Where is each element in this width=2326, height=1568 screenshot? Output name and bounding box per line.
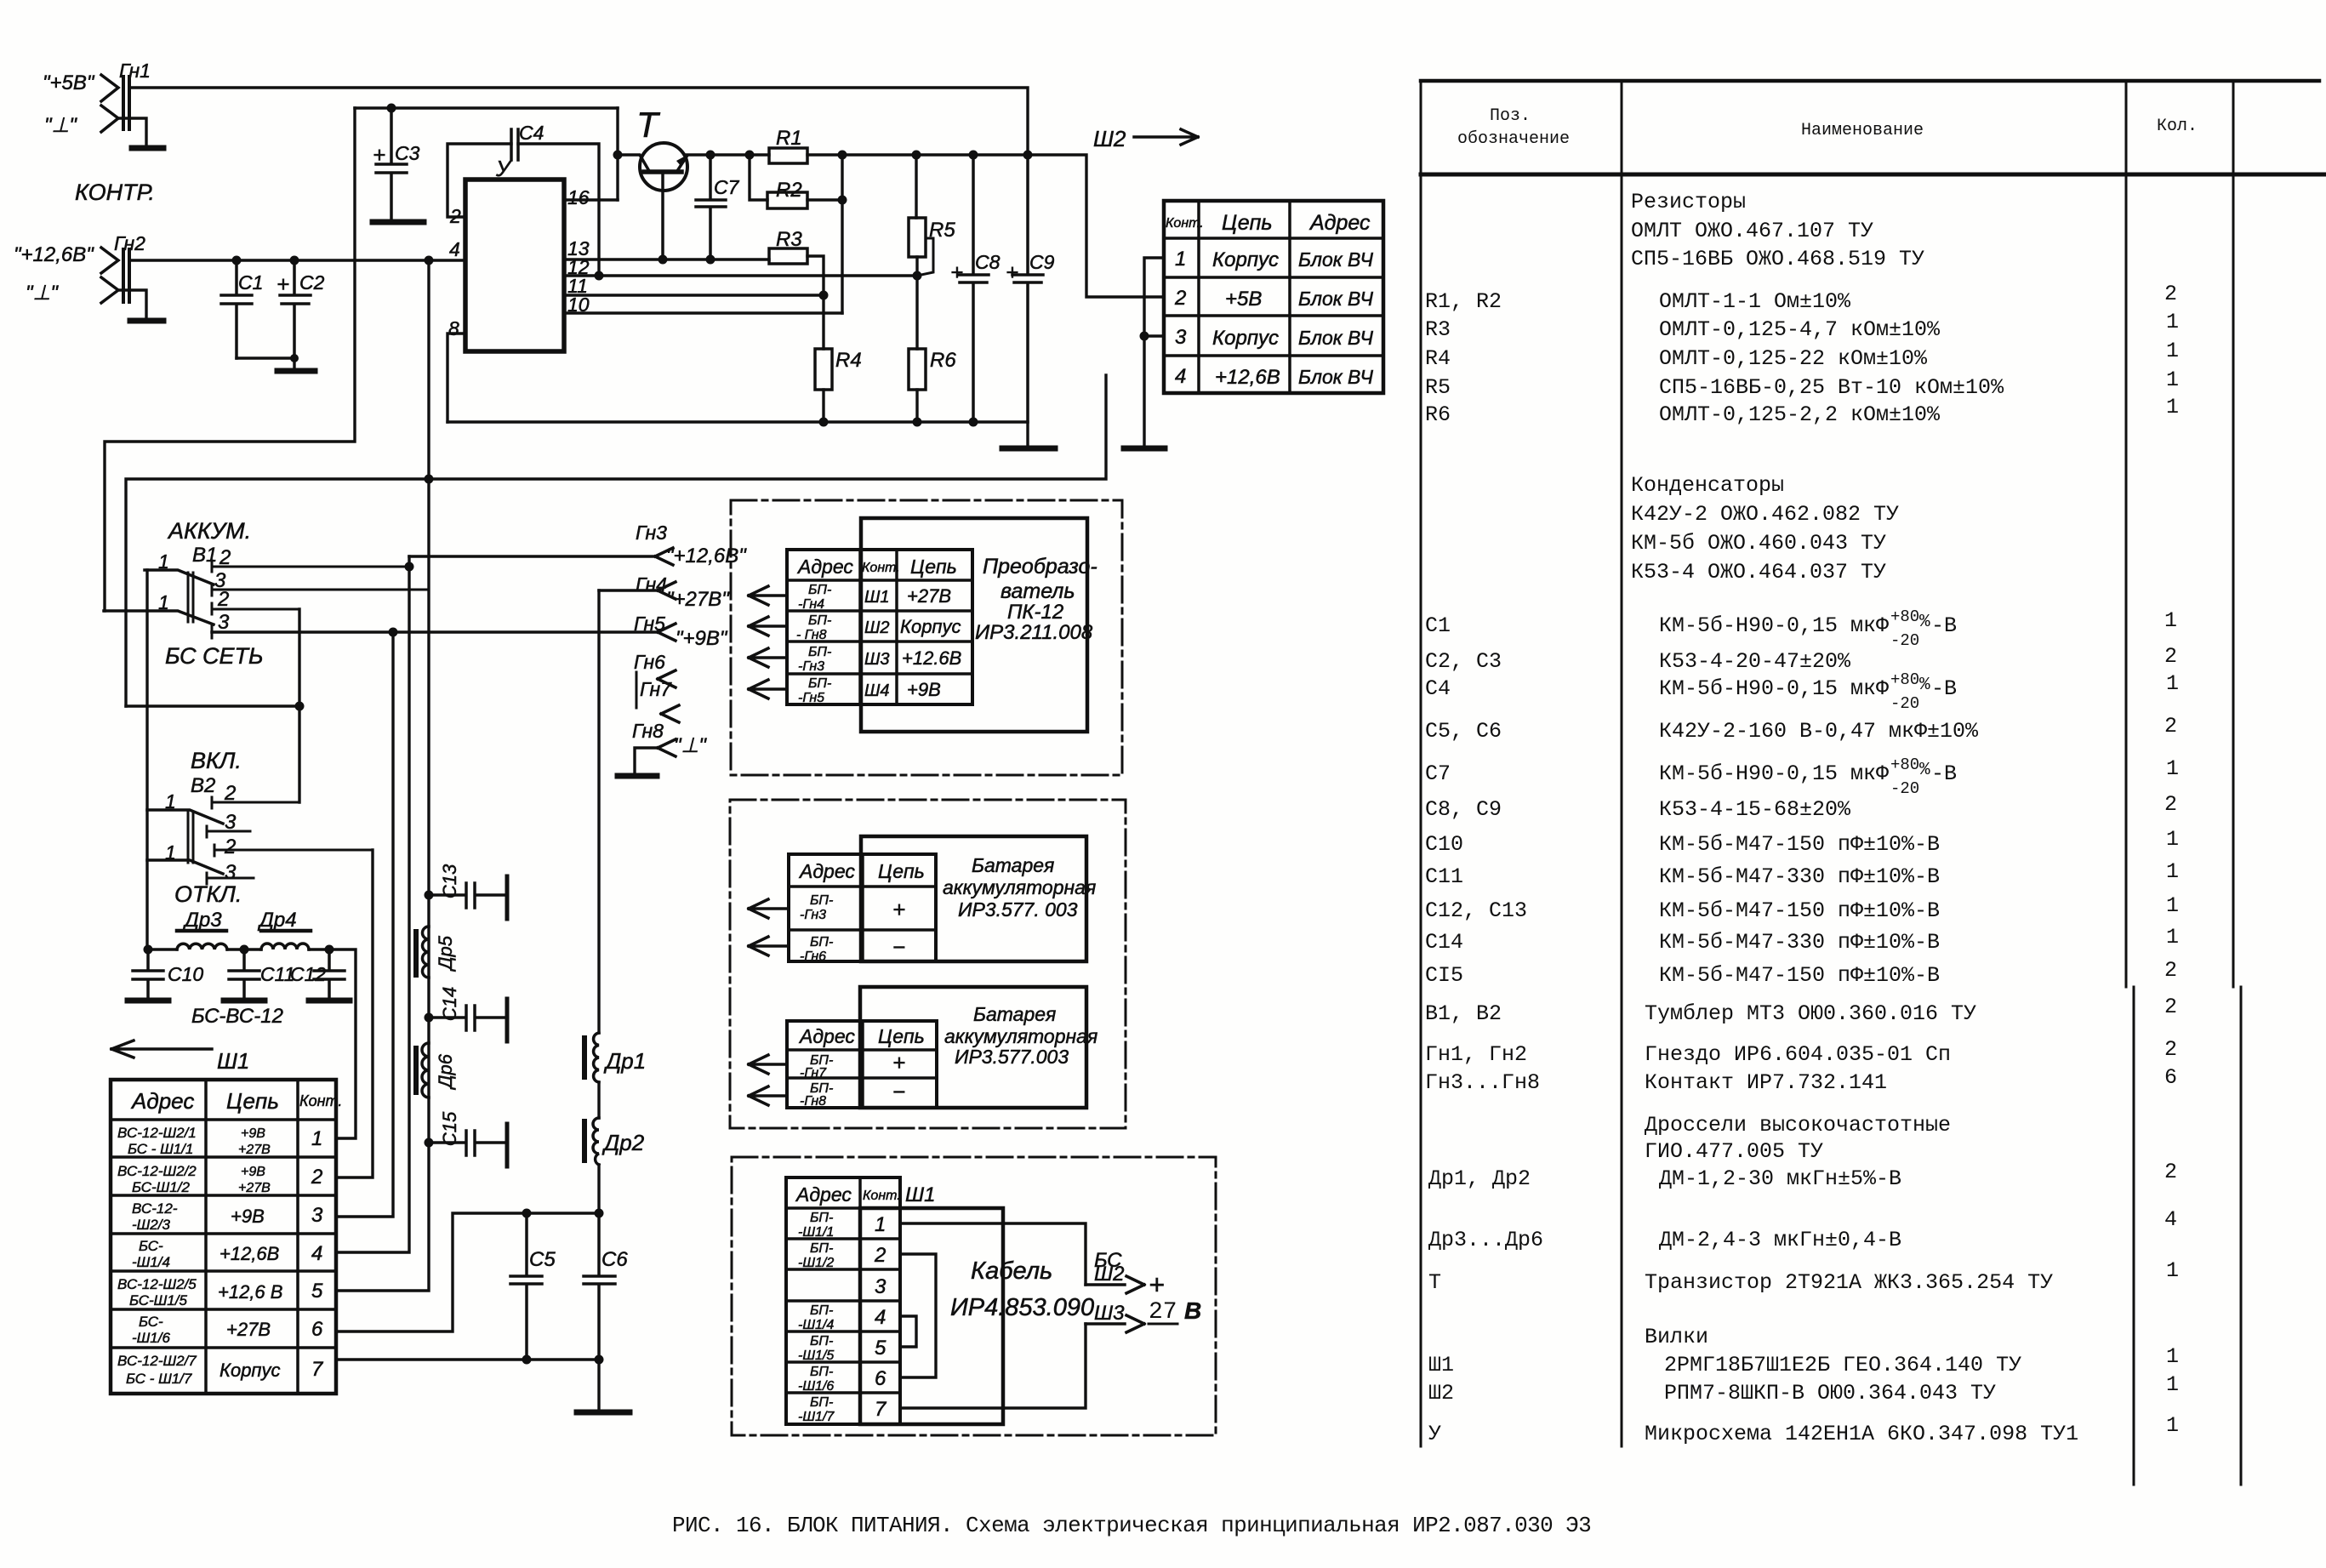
svg-text:+5В: +5В (1225, 288, 1262, 311)
svg-text:К53-4-20-47±20%: К53-4-20-47±20% (1659, 649, 1851, 674)
svg-text:2: 2 (217, 588, 229, 611)
wire Кабель pin4-pin5 loop (900, 1316, 916, 1347)
svg-text:Конт.: Конт. (1166, 216, 1204, 231)
svg-text:3: 3 (225, 861, 237, 884)
svg-text:2: 2 (2164, 714, 2177, 738)
svg-text:R1, R2: R1, R2 (1425, 289, 1502, 314)
svg-text:+12,6 В: +12,6 В (218, 1281, 282, 1303)
svg-text:%: % (1919, 761, 1930, 780)
svg-text:+: + (892, 1050, 905, 1075)
svg-text:БП-: БП- (810, 1211, 833, 1225)
svg-text:С14: С14 (1425, 930, 1463, 955)
svg-text:Ш3: Ш3 (1094, 1302, 1125, 1325)
svg-text:С14: С14 (439, 987, 460, 1021)
svg-text:+9В: +9В (907, 679, 941, 700)
svg-text:6: 6 (2164, 1065, 2177, 1090)
svg-text:Т: Т (636, 105, 661, 145)
svg-text:2: 2 (2164, 282, 2177, 306)
wire +5V top bus (129, 88, 1028, 155)
wire R1R2 node to pin10 (841, 155, 843, 313)
dash-dot box Преобразователь (731, 500, 1122, 775)
dash-dot box Кабель (732, 1157, 1216, 1435)
svg-text:В: В (1184, 1297, 1201, 1324)
svg-text:К53-4-15-68±20%: К53-4-15-68±20% (1659, 797, 1851, 822)
svg-text:СI5: СI5 (1425, 963, 1463, 988)
svg-text:1: 1 (1175, 248, 1186, 271)
svg-text:-Гн6: -Гн6 (800, 949, 826, 964)
node C3 top (387, 104, 396, 113)
capacitor C8 (950, 155, 1001, 422)
svg-text:6: 6 (875, 1367, 887, 1390)
svg-text:R1: R1 (776, 127, 802, 150)
svg-text:БП-: БП- (810, 1395, 833, 1410)
svg-text:ГИО.477.005 ТУ: ГИО.477.005 ТУ (1645, 1139, 1823, 1164)
svg-text:Др3: Др3 (182, 909, 222, 932)
svg-text:Ш2: Ш2 (1428, 1381, 1454, 1405)
svg-text:Т: Т (1428, 1270, 1441, 1295)
svg-text:ОМЛТ-1-1 Ом±10%: ОМЛТ-1-1 Ом±10% (1659, 289, 1851, 314)
choke Др6 (416, 1043, 456, 1098)
svg-text:ВС-12-Ш2/7: ВС-12-Ш2/7 (117, 1353, 197, 1369)
table Кабель Ш1 (786, 1177, 935, 1424)
labels battery 1 (943, 854, 1096, 921)
label 27 В (1149, 1297, 1201, 1326)
svg-text:3: 3 (1175, 326, 1187, 349)
svg-text:+: + (276, 271, 289, 297)
svg-text:-Ш1/2: -Ш1/2 (798, 1256, 834, 1270)
svg-text:Др4: Др4 (257, 909, 297, 932)
capacitor C7 (696, 155, 740, 259)
connector Гн1 (43, 60, 151, 146)
solid box ПК-12 (861, 518, 1087, 732)
chip U body (465, 180, 564, 351)
transistor T (618, 105, 687, 259)
svg-text:Цепь: Цепь (1222, 211, 1273, 235)
svg-text:РИС. 16. БЛОК ПИТАНИЯ. Схема э: РИС. 16. БЛОК ПИТАНИЯ. Схема электрическ… (672, 1513, 1591, 1538)
wire Др2 down to C6 node (597, 1165, 600, 1213)
svg-text:27: 27 (1149, 1299, 1177, 1326)
wire link to B2 (126, 706, 299, 802)
svg-text:8: 8 (448, 317, 459, 339)
svg-text:2: 2 (1174, 287, 1186, 310)
svg-text:1: 1 (2166, 1344, 2179, 1369)
parts row microcircuit (1428, 1413, 2179, 1446)
node C1 top (232, 256, 242, 265)
svg-text:16: 16 (567, 186, 590, 208)
ground under C1 C2 (277, 368, 315, 374)
pin 11 (564, 275, 824, 297)
switch B1 АККУМ (104, 518, 429, 638)
label Ш1 with arrow (111, 1041, 249, 1074)
svg-text:БП-: БП- (808, 583, 831, 597)
svg-text:R4: R4 (835, 349, 862, 372)
node base (613, 151, 623, 160)
svg-text:Преобразо-: Преобразо- (983, 555, 1097, 579)
wire riser to switch feed (105, 108, 355, 611)
svg-text:ватель: ватель (1001, 579, 1075, 603)
svg-text:С3: С3 (395, 142, 420, 164)
svg-text:+12,6В: +12,6В (219, 1243, 279, 1264)
svg-text:БП-: БП- (810, 935, 833, 949)
svg-text:-Ш1/7: -Ш1/7 (798, 1410, 835, 1424)
svg-text:БП-: БП- (808, 645, 831, 659)
capacitor C4 (511, 122, 544, 160)
wire Ш1 pin risers (336, 850, 373, 1177)
svg-text:С15: С15 (439, 1111, 460, 1146)
parts row transistor (1428, 1258, 2179, 1295)
svg-text:Адрес: Адрес (796, 556, 853, 578)
svg-text:-Гн3: -Гн3 (798, 659, 824, 674)
wire middle filter column (336, 479, 429, 1291)
svg-text:ВС-12-Ш2/5: ВС-12-Ш2/5 (117, 1276, 197, 1292)
svg-text:+12.6В: +12.6В (902, 647, 961, 669)
table battery 2 (787, 1021, 937, 1109)
svg-text:Цепь: Цепь (226, 1088, 279, 1114)
contact Гн8 (632, 720, 707, 773)
svg-text:1: 1 (2166, 671, 2179, 696)
svg-text:-В: -В (1931, 676, 1957, 701)
svg-text:2: 2 (874, 1244, 886, 1267)
wire +12.6V from Гн2 to chip pin 4 (129, 259, 465, 261)
switch B2 ВКЛ (147, 748, 373, 884)
svg-text:+9В: +9В (241, 1126, 265, 1141)
svg-text:Ш2: Ш2 (1093, 126, 1126, 151)
parts table header (1457, 106, 2198, 149)
svg-text:БП-: БП- (810, 1365, 833, 1379)
svg-text:С12, С13: С12, С13 (1425, 898, 1527, 923)
arrows Преобразователь (749, 586, 787, 605)
svg-text:1: 1 (2166, 1413, 2179, 1438)
svg-text:-Ш1/1: -Ш1/1 (798, 1225, 834, 1240)
svg-text:КМ-5б-М47-150 пФ±10%-В: КМ-5б-М47-150 пФ±10%-В (1659, 832, 1940, 857)
svg-text:7: 7 (311, 1358, 324, 1381)
contact Гн3 (409, 522, 747, 567)
wire ground line from Ш1 pin7 (336, 1360, 599, 1408)
svg-text:+80: +80 (1890, 670, 1919, 689)
svg-text:+80: +80 (1890, 607, 1919, 626)
svg-text:Цепь: Цепь (878, 860, 925, 882)
svg-text:Гн1, Гн2: Гн1, Гн2 (1425, 1042, 1527, 1067)
svg-text:5: 5 (311, 1280, 323, 1303)
svg-text:СП5-16ВБ-0,25 Вт-10 кОм±10%: СП5-16ВБ-0,25 Вт-10 кОм±10% (1659, 375, 2004, 400)
svg-text:Гн7: Гн7 (640, 678, 672, 700)
svg-text:-20: -20 (1890, 694, 1919, 713)
svg-text:%: % (1919, 613, 1930, 632)
svg-text:R3: R3 (1425, 317, 1451, 342)
pin 2 (448, 144, 511, 227)
svg-text:1: 1 (2166, 925, 2179, 949)
parts rows chokes (1428, 1113, 2177, 1252)
svg-text:Ш1: Ш1 (1428, 1353, 1454, 1377)
svg-text:С5: С5 (529, 1248, 556, 1271)
svg-text:2: 2 (224, 835, 236, 858)
wire Гн4 riser to Др1 (597, 590, 600, 1033)
pin 13 (564, 237, 769, 259)
node R2 drop (745, 151, 755, 160)
svg-text:ОМЛТ-0,125-2,2 кОм±10%: ОМЛТ-0,125-2,2 кОм±10% (1659, 402, 1941, 427)
svg-text:Ш4: Ш4 (864, 681, 890, 700)
wire Гн3 to pin4 riser (336, 556, 409, 1252)
svg-text:С12: С12 (290, 963, 326, 985)
svg-text:%: % (1919, 676, 1930, 695)
contact Гн7 (636, 672, 679, 722)
svg-text:В1: В1 (192, 544, 217, 567)
svg-text:-Гн4: -Гн4 (798, 597, 824, 612)
capacitor C10 (128, 949, 203, 1001)
svg-text:Микросхема 142ЕН1А 6КО.347.098: Микросхема 142ЕН1А 6КО.347.098 ТУ1 (1645, 1422, 2078, 1446)
svg-text:У: У (495, 156, 512, 181)
svg-text:БС СЕТЬ: БС СЕТЬ (165, 643, 264, 669)
svg-text:Конденсаторы: Конденсаторы (1631, 473, 1784, 498)
svg-text:С1: С1 (238, 271, 263, 294)
arrows battery 2 (749, 1055, 787, 1074)
ground under Ш2 riser (1124, 446, 1165, 452)
ground under Гн8 (618, 773, 657, 779)
svg-text:БС-: БС- (139, 1314, 163, 1330)
svg-text:БС - Ш1/7: БС - Ш1/7 (126, 1371, 192, 1387)
svg-text:ИР4.853.090: ИР4.853.090 (950, 1294, 1094, 1321)
svg-text:2: 2 (2164, 1037, 2177, 1062)
svg-text:2: 2 (311, 1166, 322, 1189)
capacitor C5 (510, 1213, 556, 1360)
svg-text:К53-4 ОЖО.464.037 ТУ: К53-4 ОЖО.464.037 ТУ (1631, 560, 1886, 584)
svg-text:2РМГ18Б7Ш1Е2Б ГЕО.364.140 ТУ: 2РМГ18Б7Ш1Е2Б ГЕО.364.140 ТУ (1664, 1353, 2021, 1377)
wire Ш2 pin1 pin3 ground riser (1144, 258, 1164, 446)
svg-text:Гнездо ИР6.604.035-01 Сп: Гнездо ИР6.604.035-01 Сп (1645, 1042, 1951, 1067)
svg-text:Блок ВЧ: Блок ВЧ (1298, 327, 1374, 349)
svg-text:К42У-2-160 В-0,47 мкФ±10%: К42У-2-160 В-0,47 мкФ±10% (1659, 719, 1979, 744)
svg-text:Корпус: Корпус (1212, 248, 1279, 271)
svg-text:ВС-12-Ш2/2: ВС-12-Ш2/2 (117, 1163, 197, 1179)
svg-text:+: + (1149, 1269, 1165, 1300)
svg-text:Конт.: Конт. (299, 1092, 342, 1109)
svg-text:1: 1 (2166, 395, 2179, 419)
capacitor C13 (425, 864, 508, 919)
svg-text:-В: -В (1931, 613, 1957, 638)
svg-text:ОМЛТ ОЖО.467.107 ТУ: ОМЛТ ОЖО.467.107 ТУ (1631, 219, 1873, 243)
capacitor C6 (584, 1213, 628, 1360)
svg-text:Контакт ИР7.732.141: Контакт ИР7.732.141 (1645, 1070, 1887, 1095)
svg-text:С1: С1 (1425, 613, 1451, 638)
svg-text:В1, В2: В1, В2 (1425, 1001, 1502, 1026)
svg-text:Адрес: Адрес (1308, 211, 1371, 235)
svg-text:R6: R6 (1425, 402, 1451, 427)
svg-text:С8: С8 (975, 251, 1001, 273)
svg-text:С4: С4 (1425, 676, 1451, 701)
svg-text:Дроссели высокочастотные: Дроссели высокочастотные (1645, 1113, 1951, 1138)
svg-text:Гн8: Гн8 (632, 720, 664, 742)
svg-text:Др2: Др2 (601, 1130, 645, 1155)
svg-text:1: 1 (2166, 339, 2179, 363)
svg-text:Блок ВЧ: Блок ВЧ (1298, 366, 1374, 388)
resistor R4 (815, 349, 862, 422)
wire B1 commons column (145, 570, 148, 949)
svg-text:-Ш1/6: -Ш1/6 (132, 1330, 170, 1346)
wire Кабель pin1 to Ш2 (900, 1223, 1086, 1285)
svg-text:КМ-5б-М47-330 пФ±10%-В: КМ-5б-М47-330 пФ±10%-В (1659, 930, 1940, 955)
ground under Гн2 (130, 318, 163, 324)
resistor R2 (750, 155, 842, 208)
pin 12 (564, 256, 917, 278)
svg-text:Цепь: Цепь (910, 556, 957, 578)
svg-text:Тумблер МТ3 ОЮ0.360.016 ТУ: Тумблер МТ3 ОЮ0.360.016 ТУ (1645, 1001, 1976, 1026)
svg-text:С6: С6 (601, 1248, 628, 1271)
svg-text:С7: С7 (1425, 761, 1451, 786)
svg-text:Резисторы: Резисторы (1631, 190, 1746, 214)
svg-text:Ш1: Ш1 (217, 1048, 249, 1074)
svg-text:Блок ВЧ: Блок ВЧ (1298, 248, 1374, 271)
svg-text:Батарея: Батарея (973, 1003, 1056, 1025)
svg-text:Цепь: Цепь (878, 1025, 925, 1047)
svg-text:6: 6 (311, 1318, 323, 1341)
wire C3 node to chip area (355, 106, 618, 109)
svg-text:БС - Ш1/1: БС - Ш1/1 (128, 1141, 193, 1157)
svg-text:С2: С2 (299, 271, 325, 294)
svg-text:1: 1 (2166, 893, 2179, 918)
svg-text:4: 4 (2164, 1207, 2177, 1232)
svg-text:Батарея: Батарея (972, 854, 1054, 876)
svg-text:СП5-16ВБ ОЖО.468.519 ТУ: СП5-16ВБ ОЖО.468.519 ТУ (1631, 247, 1924, 271)
wire base column (616, 108, 619, 200)
svg-text:5: 5 (875, 1337, 887, 1360)
contact Гн6 (634, 651, 676, 687)
ground symbol right of C9 (1002, 446, 1055, 452)
pin 16 (564, 186, 618, 208)
wire +12.6V lower bus (126, 375, 1106, 706)
svg-text:ИР3.211.008: ИР3.211.008 (975, 621, 1093, 644)
svg-text:ОМЛТ-0,125-4,7 кОм±10%: ОМЛТ-0,125-4,7 кОм±10% (1659, 317, 1941, 342)
svg-text:-Ш1/5: -Ш1/5 (798, 1348, 834, 1363)
svg-text:3: 3 (311, 1204, 323, 1227)
node T base on pin13 line (658, 255, 668, 265)
svg-text:1: 1 (2166, 1258, 2179, 1283)
svg-text:Гн3...Гн8: Гн3...Гн8 (1425, 1070, 1540, 1095)
pin 8 (448, 317, 465, 422)
svg-text:Наименование: Наименование (1801, 121, 1924, 140)
svg-text:БП-: БП- (808, 676, 831, 691)
node pin12 C4 (595, 271, 604, 281)
svg-text:КМ-5б-М47-330 пФ±10%-В: КМ-5б-М47-330 пФ±10%-В (1659, 864, 1940, 889)
svg-text:Ш1: Ш1 (864, 588, 890, 607)
svg-text:R6: R6 (930, 349, 956, 372)
svg-text:ВС-12-Ш2/1: ВС-12-Ш2/1 (117, 1125, 197, 1141)
svg-text:7: 7 (875, 1398, 887, 1421)
svg-text:+9В: +9В (241, 1165, 265, 1179)
svg-text:Ш3: Ш3 (864, 650, 890, 669)
svg-text:+9В: +9В (231, 1206, 265, 1227)
labels Кабель (950, 1257, 1094, 1321)
connector table Ш1 (111, 1080, 342, 1394)
svg-text:-Ш1/4: -Ш1/4 (798, 1318, 834, 1332)
label Ш2 with arrow (1093, 126, 1198, 151)
wire between chokes (597, 1082, 600, 1118)
svg-text:С9: С9 (1029, 251, 1055, 273)
svg-text:БС-Ш1/2: БС-Ш1/2 (132, 1179, 190, 1195)
ground under C3 (373, 220, 424, 225)
ground under C6 (577, 1410, 630, 1416)
node +12.6V riser (425, 256, 434, 265)
parts rows switches contacts (1425, 995, 2177, 1095)
capacitor C12 (290, 949, 350, 1001)
svg-text:R2: R2 (776, 179, 802, 202)
svg-text:Ш1: Ш1 (905, 1183, 935, 1206)
svg-text:2: 2 (2164, 995, 2177, 1019)
svg-text:-Гн3: -Гн3 (800, 908, 826, 922)
svg-text:Ш2: Ш2 (1094, 1263, 1124, 1286)
contact Гн4 (599, 573, 730, 611)
svg-text:БП-: БП- (810, 1303, 833, 1318)
svg-text:ОМЛТ-0,125-22 кОм±10%: ОМЛТ-0,125-22 кОм±10% (1659, 346, 1928, 371)
choke Др1 (584, 1033, 646, 1082)
capacitor C14 (425, 987, 508, 1041)
svg-text:БП-: БП- (810, 1241, 833, 1256)
svg-text:Др1, Др2: Др1, Др2 (1428, 1166, 1531, 1191)
svg-text:КМ-5б-Н90-0,15 мкФ: КМ-5б-Н90-0,15 мкФ (1659, 613, 1889, 638)
choke Др4 (257, 909, 311, 949)
svg-text:Др6: Др6 (435, 1053, 456, 1091)
wire C4 to pin12 column (518, 144, 599, 276)
svg-text:БП-: БП- (810, 893, 833, 908)
svg-text:Блок ВЧ: Блок ВЧ (1298, 288, 1374, 310)
svg-text:В2: В2 (191, 774, 215, 797)
wire Кабель pin2-pin6 loop (900, 1254, 936, 1377)
svg-text:Конт.: Конт. (862, 561, 900, 575)
svg-text:2: 2 (2164, 958, 2177, 983)
svg-text:−: − (892, 1079, 905, 1104)
svg-text:ИР3.577. 003: ИР3.577. 003 (958, 898, 1078, 921)
svg-text:Адрес: Адрес (798, 860, 855, 882)
svg-text:ДМ-2,4-3 мкГн±0,4-В: ДМ-2,4-3 мкГн±0,4-В (1659, 1228, 1901, 1252)
parts rows plugs (1428, 1325, 2179, 1405)
svg-text:-Ш1/4: -Ш1/4 (132, 1254, 170, 1270)
capacitor C1 (221, 260, 263, 358)
svg-text:3: 3 (218, 611, 230, 634)
svg-text:БП-: БП- (808, 613, 831, 628)
svg-text:-20: -20 (1890, 631, 1919, 650)
svg-text:С5, С6: С5, С6 (1425, 719, 1502, 744)
svg-text:R5: R5 (1425, 375, 1451, 400)
svg-text:4: 4 (875, 1306, 886, 1329)
solid box battery 2 (860, 987, 1086, 1108)
wire R1 right to C8 C9 and Ш2 (807, 155, 1164, 297)
svg-text:4: 4 (449, 238, 460, 260)
contact Гн5 (212, 613, 728, 650)
svg-text:Конт.: Конт. (863, 1189, 901, 1203)
svg-text:Кол.: Кол. (2157, 117, 2198, 136)
svg-text:У: У (1428, 1422, 1441, 1446)
wire Кабель pin7 to Ш3 (900, 1324, 1086, 1408)
resistor R3 (769, 228, 824, 349)
choke Др5 (416, 927, 456, 978)
svg-text:2: 2 (2164, 792, 2177, 817)
svg-text:АККУМ.: АККУМ. (167, 518, 251, 544)
pin 10 (564, 294, 842, 316)
svg-text:БП-: БП- (810, 1334, 833, 1348)
svg-text:С10: С10 (168, 963, 203, 985)
svg-text:Кабель: Кабель (971, 1257, 1052, 1285)
labels Преобразователь (975, 555, 1097, 644)
wire +27V line from Ш1 pin6 (336, 1213, 599, 1331)
svg-text:Ш2: Ш2 (864, 619, 890, 637)
svg-text:1: 1 (2166, 1372, 2179, 1397)
wire C1-C2 bottom join (237, 358, 294, 369)
svg-text:4: 4 (311, 1242, 322, 1265)
svg-text:Транзистор 2Т921А ЖК3.365.254: Транзистор 2Т921А ЖК3.365.254 ТУ (1645, 1270, 2053, 1295)
svg-text:Корпус: Корпус (219, 1360, 281, 1381)
parts rows resistors (1425, 190, 2179, 427)
svg-text:-Гн8: -Гн8 (800, 1094, 826, 1109)
resistor R6 (909, 276, 956, 422)
